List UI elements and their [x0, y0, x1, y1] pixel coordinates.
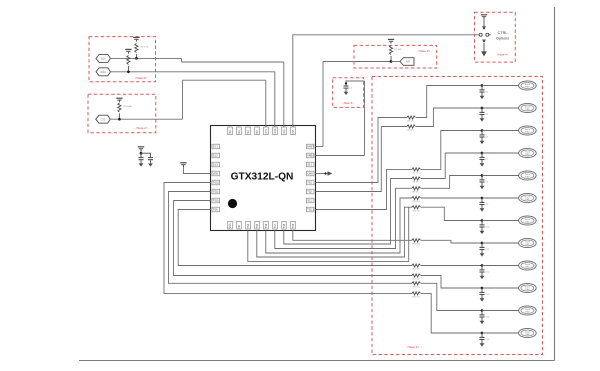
svg-text:S2.1: S2.1: [307, 164, 313, 167]
svg-text:S1.3: S1.3: [213, 164, 219, 167]
junction on CTL wire: [118, 118, 121, 121]
svg-text:PAD: PAD: [525, 221, 530, 224]
IC U1 left pin box 3 (S1.3): [212, 162, 220, 167]
svg-text:CTL: CTL: [265, 128, 268, 133]
wire bypass top to capacitor: [346, 81, 365, 86]
ground below C6: [481, 137, 483, 141]
ground below C4: [481, 92, 483, 96]
svg-text:VDD: VDD: [213, 173, 218, 176]
svg-text:SCL: SCL: [101, 57, 107, 61]
IC U1 left pin box 6 (TS11): [212, 189, 220, 194]
red dashed box CTRL Options: [475, 12, 516, 62]
wire from IC right pin 2 to bypass riser: [316, 155, 365, 157]
wire feed for touch channel 2: [316, 127, 408, 192]
ground below C11: [481, 250, 483, 254]
svg-text:R8 1K: R8 1K: [413, 182, 420, 184]
touch pad 6: [519, 193, 537, 202]
touch pad 7: [519, 216, 537, 225]
ground below C1: [140, 160, 142, 163]
node TS7 junction: [481, 219, 484, 222]
svg-text:PAD: PAD: [525, 153, 530, 156]
wire CTL riser up: [182, 80, 184, 119]
wire from IC top pin 8 riser: [292, 35, 294, 128]
IC U1 top pin box 8 (INT): [291, 127, 296, 135]
port P4 INT: [400, 58, 414, 66]
node TS5 junction: [481, 174, 484, 177]
junction VDD decoupling: [140, 152, 143, 155]
touch pad 8: [519, 238, 537, 247]
wire from R12 to pad node: [421, 240, 482, 243]
svg-text:PAD: PAD: [525, 311, 530, 314]
wire from IC right pin 1 to riser: [316, 146, 324, 148]
resistor R1 SCL pull-up: [135, 44, 138, 53]
svg-text:TS2: TS2: [307, 191, 312, 194]
resistor R11 series channel 7: [412, 206, 421, 209]
svg-text:TS10: TS10: [213, 200, 220, 203]
wire node to touch pad 12: [482, 332, 519, 334]
capacitor C12 channel 9: [481, 266, 483, 270]
svg-text:NC: NC: [256, 130, 259, 134]
svg-text:S1.1: S1.1: [213, 146, 219, 149]
svg-text:TS8: TS8: [283, 223, 286, 228]
svg-text:PAD: PAD: [525, 288, 530, 291]
wire VDD to select pin: [483, 19, 485, 27]
svg-text:GTX312L-QN: GTX312L-QN: [231, 172, 294, 183]
wire node to touch pad 2: [482, 107, 519, 109]
capacitor C2 decoupling: [148, 157, 153, 159]
IC U1 left pin box 4 (VDD): [212, 171, 220, 176]
wire feed for touch channel 11: [169, 192, 413, 284]
wire node to touch pad 9: [482, 265, 519, 267]
IC U1 bottom pin box 6 (TS7): [273, 221, 278, 229]
ground below C7: [481, 160, 483, 164]
touch pad 3: [519, 126, 537, 135]
ground below C5: [481, 115, 483, 119]
node TS4 junction: [481, 152, 484, 155]
red dashed box for VREG bypass cap: [333, 78, 364, 108]
touch pad 9: [519, 261, 537, 270]
capacitor C3 VREG bypass: [344, 85, 349, 87]
svg-text:PAD: PAD: [525, 333, 530, 336]
wire SDA from port to IC top pin 6: [110, 71, 274, 73]
IC U1 top pin box 3 (NC): [246, 127, 251, 135]
ground below C12: [481, 272, 483, 276]
svg-text:R15 1K: R15 1K: [413, 287, 421, 289]
capacitor C10 channel 7: [481, 221, 483, 225]
wire SCL to IC top pin 7: [182, 61, 284, 63]
wire riser up to INT level: [322, 62, 324, 147]
IC U1 right pin box 3 (S2.1): [306, 162, 314, 167]
wire CTL vertical drop to IC pin: [265, 80, 267, 127]
resistor R8 series channel 4: [412, 177, 421, 180]
wire VDD tie from IC left pin 4: [184, 167, 211, 174]
ground below C3: [345, 89, 347, 92]
wire node to touch pad 1: [482, 85, 519, 87]
IC U1 right pin box 2 (VREG): [306, 153, 314, 158]
wire from R14 to pad node: [421, 276, 482, 289]
svg-text:TS6: TS6: [265, 223, 268, 228]
svg-text:TS7: TS7: [274, 223, 277, 228]
resistor R14 series channel 10: [412, 274, 421, 277]
svg-text:INT: INT: [406, 60, 411, 64]
svg-text:CTL: CTL: [101, 117, 106, 121]
wire node to touch pad 8: [482, 242, 519, 244]
svg-text:S2.2: S2.2: [307, 200, 313, 203]
svg-text:PAD: PAD: [525, 243, 530, 246]
svg-text:R5 1K: R5 1K: [408, 121, 415, 123]
svg-text:NC: NC: [247, 130, 250, 134]
wire to INT junction: [323, 61, 391, 63]
svg-text:SDA: SDA: [274, 128, 277, 133]
IC U1 left pin box 8 (TS9): [212, 207, 220, 212]
svg-text:NRST: NRST: [307, 146, 314, 149]
svg-text:R14 1K: R14 1K: [413, 279, 421, 281]
IC U1 right pin box 8 (TS2.3): [306, 207, 314, 212]
power symbol VDD above R4: [388, 39, 394, 40]
IC U1 top pin box 1 (NC): [228, 127, 233, 135]
svg-text:R11 1K: R11 1K: [413, 210, 421, 212]
resistor R9 series channel 5: [412, 187, 421, 190]
port P3 CTL: [96, 115, 111, 123]
svg-text:<Note 2>: <Note 2>: [135, 126, 148, 130]
wire feed for touch channel 10: [174, 201, 413, 276]
IC U1 right pin box 1 (NRST): [306, 144, 314, 149]
svg-text:R12 1K: R12 1K: [413, 244, 421, 246]
resistor R5 series channel 1: [407, 116, 416, 119]
wire from R9 to pad node: [421, 176, 482, 189]
resistor R13 series channel 9: [412, 264, 421, 267]
wire feed for touch channel 6: [266, 198, 412, 253]
IC U1 top pin box 4 (NC): [255, 127, 260, 135]
resistor R7 series channel 3: [412, 168, 421, 171]
wire from R11 to pad node: [421, 207, 482, 220]
red dashed option box for SCL/SDA pull-ups: [89, 37, 156, 82]
svg-text:TS4: TS4: [247, 223, 250, 228]
ground below C14: [481, 317, 483, 321]
touch pad 2: [519, 103, 537, 112]
capacitor C8 channel 5: [481, 176, 483, 180]
port P2 SDA: [96, 68, 111, 76]
svg-text:TS1: TS1: [307, 182, 312, 185]
svg-text:R7 1K: R7 1K: [413, 173, 420, 175]
red dashed box touch channel network: [372, 77, 543, 355]
power symbol VDD at IC left pin 4: [180, 162, 186, 163]
svg-text:SCL: SCL: [283, 128, 286, 133]
resistor R4 INT pull-up: [389, 46, 392, 55]
jumper pin upper (down arrow): [482, 26, 486, 30]
ground below C10: [481, 227, 483, 231]
IC U1 right pin box 6 (TS2): [306, 189, 314, 194]
ground below C15: [481, 340, 483, 344]
jumper pad right circle: [486, 33, 489, 36]
svg-text:PAD: PAD: [525, 266, 530, 269]
capacitor C9 channel 6: [481, 198, 483, 202]
node TS8 junction: [481, 242, 484, 245]
wire junction to port INT: [391, 61, 400, 63]
wire feed for touch channel 9: [178, 210, 412, 266]
svg-text:R2 4.7K: R2 4.7K: [133, 59, 141, 61]
capacitor C13 channel 10: [481, 288, 483, 292]
svg-text:R9 1K: R9 1K: [413, 192, 420, 194]
svg-text:<Note 3>: <Note 3>: [342, 101, 354, 105]
resistor R6 series channel 2: [407, 125, 416, 128]
svg-text:SDA: SDA: [101, 70, 107, 74]
resistor R10 series channel 6: [412, 196, 421, 199]
sheet border bottom edge: [79, 360, 555, 362]
resistor R12 series channel 8: [412, 239, 421, 242]
wire feed for touch channel 7: [257, 207, 412, 257]
svg-text:TS2.3: TS2.3: [307, 209, 314, 212]
capacitor C5 channel 2: [481, 108, 483, 112]
junction on INT wire: [390, 60, 393, 63]
IC U1 left pin box 1 (S1.1): [212, 144, 220, 149]
ground below C9: [481, 205, 483, 209]
IC U1 left pin box 2 (S1.2): [212, 153, 220, 158]
power symbol VDD above R2: [125, 49, 131, 50]
svg-text:TS5: TS5: [256, 223, 259, 228]
power symbol VDD for decoupling: [138, 146, 144, 147]
ground below C2: [150, 160, 152, 163]
wire node to touch pad 5: [482, 175, 519, 177]
power symbol VDD in CTRL box: [481, 14, 487, 15]
wire from R10 to pad node: [421, 197, 482, 199]
svg-text:VSS: VSS: [229, 223, 232, 228]
node TS11 junction: [481, 309, 484, 312]
wire SCL jog down: [181, 58, 183, 62]
svg-text:TS3: TS3: [292, 223, 295, 228]
power symbol VDD above R3: [116, 98, 122, 99]
svg-text:TS9: TS9: [213, 209, 218, 212]
touch pad 12: [519, 328, 537, 337]
IC U1 bottom pin box 4 (TS5): [255, 221, 260, 229]
IC U1 top pin box 5 (CTL): [264, 127, 269, 135]
ground below C13: [481, 295, 483, 299]
IC U1 bottom pin box 7 (TS8): [282, 221, 287, 229]
capacitor C11 channel 8: [481, 243, 483, 247]
touch pad 1: [519, 81, 537, 90]
IC U1 top pin box 2 (NC): [237, 127, 242, 135]
svg-text:R6 1K: R6 1K: [408, 130, 415, 132]
wire feed spare bottom pin riser: [248, 207, 409, 261]
node TS12 junction: [481, 332, 484, 335]
svg-text:VREG: VREG: [307, 155, 314, 158]
wire from R5 to pad node: [416, 86, 482, 118]
junction on bypass cap stem: [345, 82, 347, 84]
wire node to touch pad 3: [482, 130, 519, 132]
capacitor C14 channel 11: [481, 311, 483, 315]
wire feed for touch channel 3: [316, 169, 413, 209]
svg-text:R3 100K: R3 100K: [124, 106, 133, 108]
svg-text:NC: NC: [238, 130, 241, 134]
wire node to touch pad 11: [482, 310, 519, 312]
off-page arrow CMD: [328, 171, 333, 175]
IC U1 right pin box 5 (TS1): [306, 180, 314, 185]
IC U1 bottom pin box 1 (VSS): [228, 221, 233, 229]
wire SDA vertical drop to IC pin: [274, 72, 276, 127]
IC U1 right pin box 7 (S2.2): [306, 198, 314, 203]
svg-text:<Note 4>: <Note 4>: [497, 53, 509, 57]
node TS2 junction: [481, 107, 484, 110]
capacitor C7 channel 4: [481, 153, 483, 157]
touch pad 10: [519, 283, 537, 292]
IC U1 bottom pin box 2 (NC): [237, 221, 242, 229]
svg-text:NC: NC: [238, 225, 241, 229]
svg-text:Options: Options: [496, 36, 509, 40]
wire feed for touch channel 4: [284, 179, 412, 245]
wire feed for touch channel 12: [164, 183, 412, 294]
touch pad 5: [519, 171, 537, 180]
wire from R6 to pad node: [416, 108, 482, 127]
svg-text:TS11: TS11: [213, 191, 219, 194]
junction on SCL wire: [135, 57, 138, 60]
resistor R16 series channel 12: [412, 292, 421, 295]
port P1 SCL: [96, 54, 111, 62]
wire to ground in CTRL box: [483, 43, 485, 52]
wire from R7 to pad node: [421, 131, 482, 170]
IC U1 bottom pin box 5 (TS6): [264, 221, 269, 229]
node TS10 junction: [481, 287, 484, 290]
IC U1 right pin box 4 (CMD): [306, 171, 314, 176]
svg-text:NC: NC: [229, 130, 232, 134]
wire SCL from port to jog: [110, 57, 181, 59]
ground below C8: [481, 182, 483, 186]
wire from R8 to pad node: [421, 153, 482, 179]
wire node to touch pad 4: [482, 152, 519, 154]
svg-text:PAD: PAD: [525, 198, 530, 201]
IC U1 left pin box 7 (TS10): [212, 198, 220, 203]
IC U1 bottom pin box 8 (TS3): [291, 221, 296, 229]
svg-text:INT: INT: [292, 129, 295, 134]
IC U1 top pin box 7 (SCL): [282, 127, 287, 135]
wire stub CMD from IC right pin 4: [316, 173, 328, 175]
IC U1 top pin box 6 (SDA): [273, 127, 278, 135]
svg-text:R1 4.7K: R1 4.7K: [141, 47, 149, 49]
svg-text:CTRL: CTRL: [498, 31, 508, 35]
jumper pin lower: [483, 40, 486, 43]
node TS9 junction: [481, 264, 484, 267]
svg-text:<Note 2>: <Note 2>: [418, 49, 431, 53]
svg-text:R4 10K: R4 10K: [394, 49, 402, 51]
wire CTL to IC top pin 5: [183, 79, 266, 81]
capacitor C1 decoupling: [139, 157, 144, 159]
sheet border right edge: [554, 7, 556, 361]
touch pad 11: [519, 306, 537, 315]
ground arrow in CTRL box: [481, 51, 487, 56]
svg-text:PAD: PAD: [525, 86, 530, 89]
wire from R16 to pad node: [421, 293, 482, 333]
resistor R15 series channel 11: [412, 282, 421, 285]
capacitor C4 channel 1: [481, 86, 483, 90]
jumper pad left circle: [479, 33, 482, 36]
red dashed option box for CTL line: [88, 94, 156, 133]
wire from R13 to pad node: [421, 265, 482, 267]
svg-text:<Note 1>: <Note 1>: [407, 345, 420, 349]
svg-text:PAD: PAD: [525, 176, 530, 179]
wire feed for touch channel 1: [316, 118, 408, 183]
red dashed option box for INT pull-up: [354, 45, 437, 68]
wire CTL from port to riser: [110, 118, 182, 120]
resistor R2 SDA pull-up: [127, 56, 130, 65]
IC U1 left pin box 5 (TS12): [212, 180, 220, 185]
svg-text:PAD: PAD: [525, 108, 530, 111]
wire node to touch pad 6: [482, 197, 519, 199]
svg-text:R13 1K: R13 1K: [413, 269, 421, 271]
junction on SDA wire: [127, 70, 130, 73]
wire SCL vertical drop to IC pin: [283, 62, 285, 127]
capacitor C6 channel 3: [481, 131, 483, 135]
wire feed for touch channel 5: [275, 188, 412, 248]
touch pad 4: [519, 148, 537, 157]
node TS6 junction: [481, 197, 484, 200]
wire from R15 to pad node: [421, 283, 482, 310]
svg-text:R10 1K: R10 1K: [413, 201, 421, 203]
node TS1 junction: [481, 84, 484, 87]
node TS3 junction: [481, 129, 484, 132]
wire VDD stem: [140, 151, 142, 158]
svg-text:CMD: CMD: [307, 173, 313, 176]
wire bypass riser up: [364, 81, 366, 156]
IC U1 bottom pin box 3 (TS4): [246, 221, 251, 229]
svg-text:R16 1K: R16 1K: [413, 297, 421, 299]
capacitor C15 channel 12: [481, 333, 483, 337]
wire node to touch pad 7: [482, 220, 519, 222]
wire node to touch pad 10: [482, 287, 519, 289]
IC U1 pin-1 marker dot: [228, 199, 237, 208]
resistor R3 CTL pull-up: [118, 103, 121, 112]
power symbol VDD above R1: [133, 37, 139, 38]
IC U1 GTX312L-QN body: [211, 126, 316, 231]
wire feed for touch channel 8: [293, 231, 412, 241]
wire branch to C2: [141, 153, 151, 157]
svg-text:PAD: PAD: [525, 131, 530, 134]
svg-text:<Note 2>: <Note 2>: [135, 76, 148, 80]
wire CTRL select to options box: [293, 34, 479, 36]
svg-text:S1.2: S1.2: [213, 155, 219, 158]
svg-text:TS12: TS12: [213, 182, 220, 185]
